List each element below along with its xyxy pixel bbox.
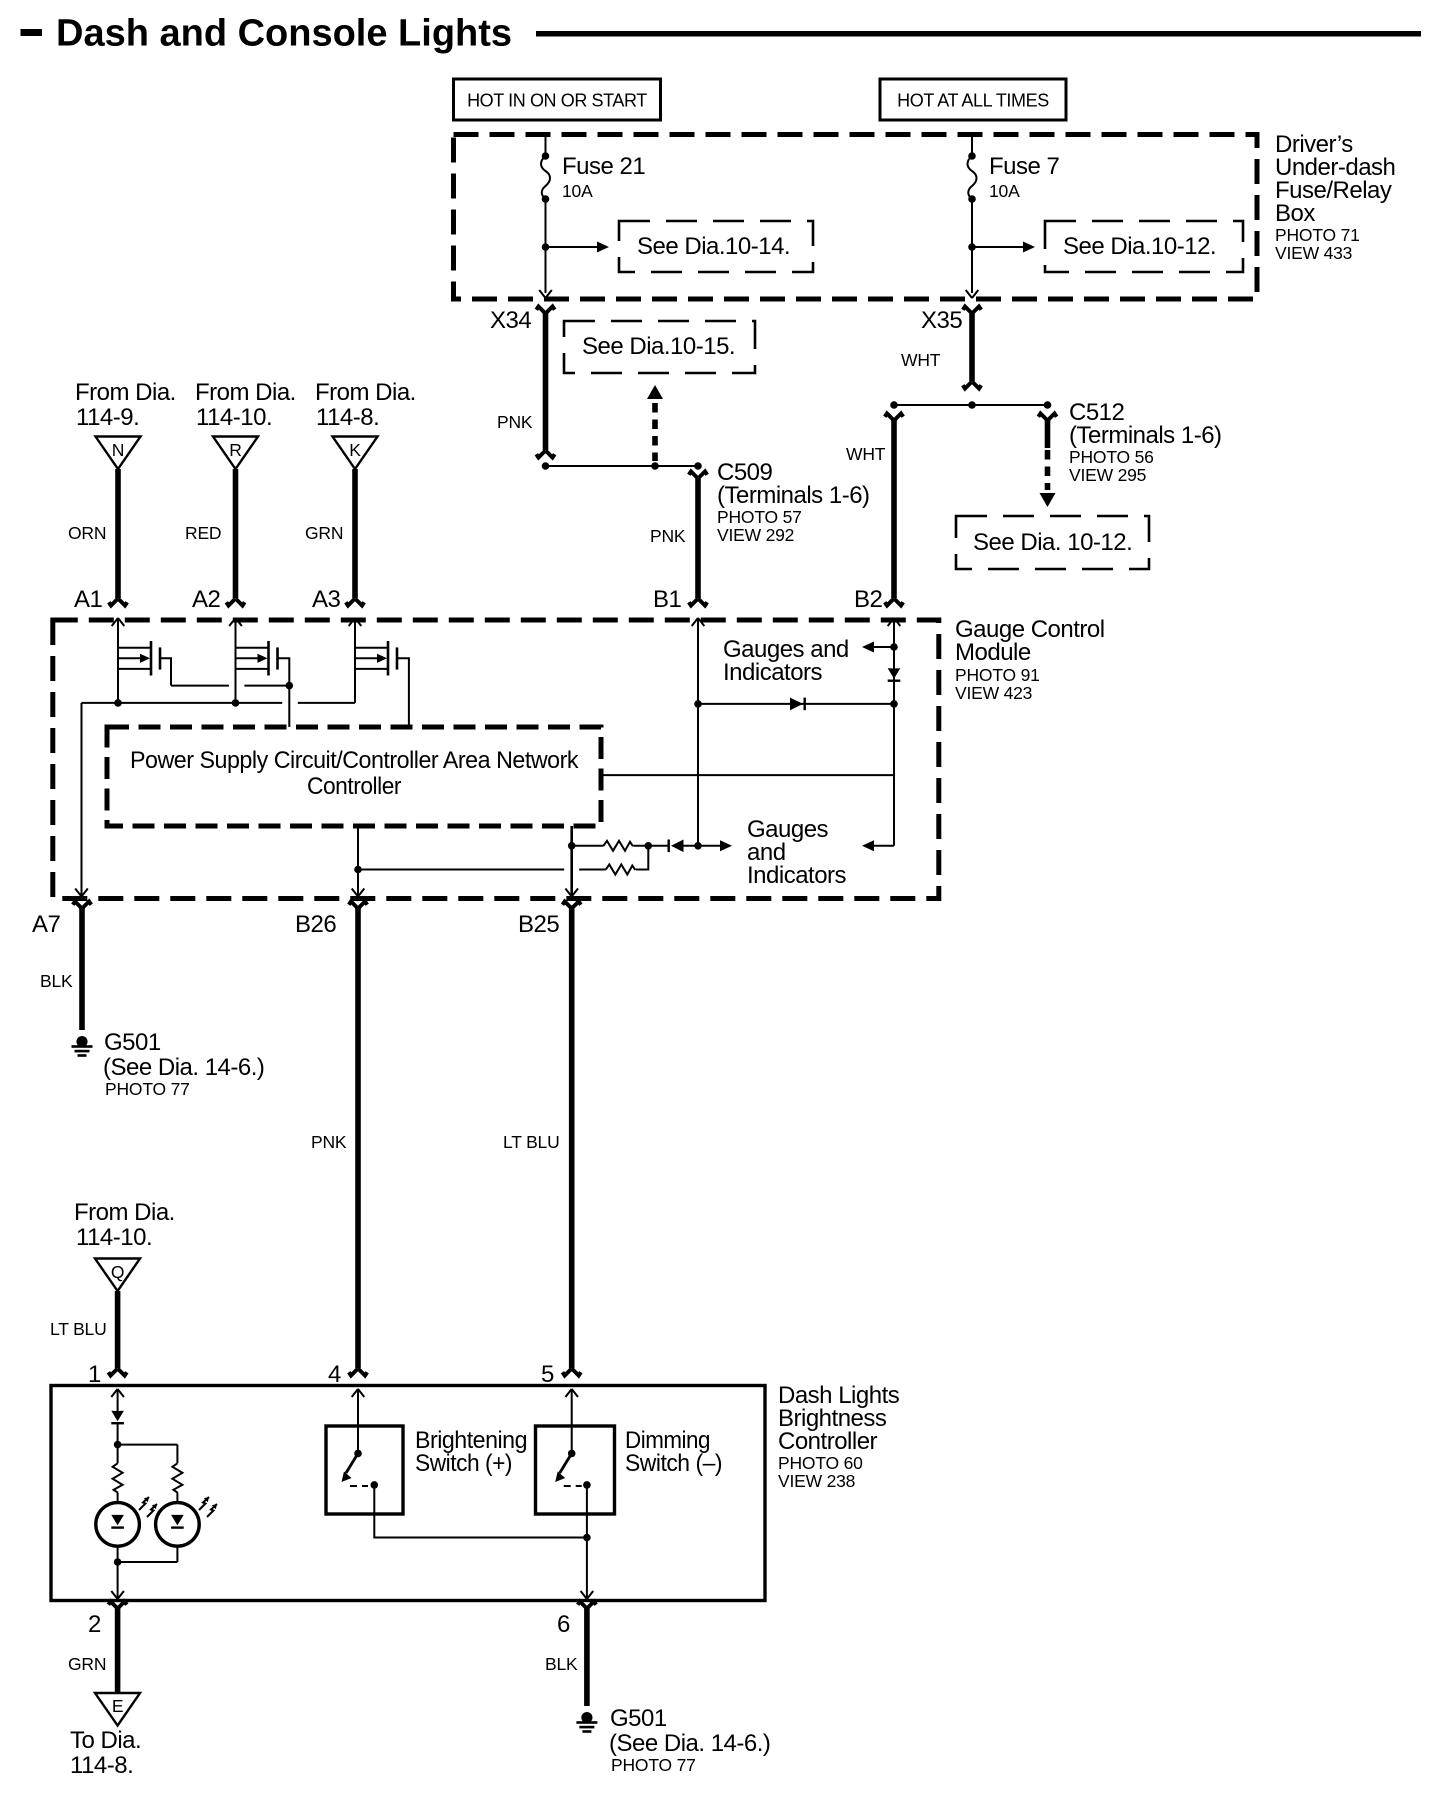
connector C509	[650, 459, 870, 606]
label Gauges and Indicators (lower)	[747, 816, 847, 889]
wire arrow to gauges (upper)	[862, 642, 898, 653]
node B2/diode line	[890, 700, 898, 708]
wire ORN N to A1	[68, 469, 127, 606]
wire pin5 entry arrow	[565, 1389, 578, 1453]
LED LED2	[156, 1497, 217, 1546]
svg-text:VIEW 292: VIEW 292	[717, 525, 794, 545]
svg-text:WHT: WHT	[901, 350, 941, 370]
svg-text:114-10.: 114-10.	[196, 404, 272, 431]
svg-text:Fuse 21: Fuse 21	[562, 153, 645, 180]
wire B2 stem	[888, 618, 901, 846]
wire B2 bottom arrow to gauges	[862, 840, 894, 851]
wire LT BLU Q to pin 1	[50, 1291, 127, 1376]
diode D3 (pointing left)	[668, 840, 684, 853]
resistor R4	[172, 1463, 182, 1493]
label See Dia.10-12. (upper)	[1045, 221, 1243, 272]
svg-text:E: E	[112, 1696, 123, 1716]
svg-text:10A: 10A	[989, 181, 1020, 201]
wire from controller box to B2 stem	[601, 774, 894, 776]
svg-text:VIEW 423: VIEW 423	[955, 683, 1032, 703]
svg-text:From Dia.: From Dia.	[315, 379, 416, 406]
wire lower gauge row	[568, 841, 668, 851]
wire BLK A7 to ground	[40, 902, 91, 1031]
wire LT BLU B25 to pin 5	[503, 902, 581, 1376]
svg-text:114-9.: 114-9.	[76, 404, 139, 431]
svg-text:From Dia.: From Dia.	[195, 379, 296, 406]
svg-text:G501: G501	[104, 1029, 161, 1056]
svg-text:WHT: WHT	[846, 444, 886, 464]
wire diode row B1 to B2	[698, 703, 894, 705]
wire WHT to B2	[846, 414, 903, 606]
wire: dashed arrow up to See Dia.10-15	[647, 385, 663, 461]
gauge control module box (dashed)	[53, 620, 939, 899]
wire RED R to A2	[185, 469, 245, 606]
wire pin1 entry arrow	[111, 1389, 124, 1412]
wire: dashed arrow down to See Dia. 10-12	[1040, 450, 1056, 507]
diode D1 on B2 stem	[888, 668, 901, 682]
wire jog X34 to C509	[546, 465, 699, 467]
wire pin4 entry arrow	[352, 1389, 365, 1453]
diode D4 at pin 1	[111, 1411, 124, 1425]
diode D2 in row	[790, 698, 806, 711]
svg-text:To Dia.: To Dia.	[70, 1727, 141, 1754]
wire to B1 and arrow right	[684, 840, 733, 851]
svg-text:B1: B1	[653, 586, 682, 613]
svg-text:4: 4	[328, 1361, 341, 1388]
wire BLK pin 6 to ground	[545, 1602, 596, 1707]
svg-text:Dash and Console Lights: Dash and Console Lights	[56, 13, 512, 55]
label See Dia.10-15.	[564, 321, 755, 373]
svg-text:LT BLU: LT BLU	[50, 1319, 107, 1339]
svg-text:HOT IN ON OR START: HOT IN ON OR START	[467, 91, 647, 111]
transistor Q3	[349, 618, 409, 727]
svg-text:PHOTO 56: PHOTO 56	[1069, 447, 1154, 467]
label Brightening Switch (+)	[415, 1427, 527, 1477]
svg-text:Fuse 7: Fuse 7	[989, 153, 1060, 180]
svg-text:PHOTO 60: PHOTO 60	[778, 1453, 863, 1473]
wire: fuse7 branch arrow to See Dia.10-12	[968, 242, 1035, 253]
svg-text:From Dia.: From Dia.	[74, 1199, 175, 1226]
node Q from Dia 114-10	[74, 1199, 175, 1291]
svg-text:PHOTO 71: PHOTO 71	[1275, 225, 1360, 245]
svg-text:A7: A7	[32, 911, 61, 938]
svg-text:K: K	[349, 440, 361, 460]
svg-text:BLK: BLK	[545, 1654, 578, 1674]
svg-text:Box: Box	[1275, 200, 1315, 227]
wire gate bus	[82, 699, 356, 707]
wire A7 drop inside module	[81, 703, 83, 898]
svg-text:From Dia.: From Dia.	[75, 379, 176, 406]
connector X34	[490, 307, 555, 458]
LED LED1	[96, 1497, 157, 1546]
svg-text:PHOTO 77: PHOTO 77	[105, 1079, 190, 1099]
svg-text:A1: A1	[74, 586, 103, 613]
connector X35	[901, 307, 981, 389]
node R from Dia 114-10	[195, 379, 296, 469]
svg-text:114-8.: 114-8.	[316, 404, 379, 431]
svg-text:A3: A3	[312, 586, 341, 613]
title	[21, 29, 43, 36]
node N from Dia 114-9	[75, 379, 176, 469]
svg-text:Controller: Controller	[307, 773, 401, 800]
svg-text:2: 2	[88, 1611, 101, 1638]
svg-text:N: N	[112, 440, 124, 460]
node E to Dia 114-8	[70, 1693, 141, 1779]
wire LED bottoms join	[111, 1546, 177, 1599]
svg-text:Indicators: Indicators	[747, 862, 847, 889]
svg-text:(Terminals 1-6): (Terminals 1-6)	[1069, 422, 1222, 449]
switch S2 dimming box	[536, 1426, 615, 1514]
node K from Dia 114-8	[315, 379, 416, 469]
wire: fuse21 branch arrow to See Dia.10-14	[542, 242, 609, 253]
wire Q1 source	[171, 685, 229, 687]
label HOT IN ON OR START	[454, 79, 661, 120]
fuse F21 "Fuse 21"	[541, 134, 645, 293]
svg-text:BLK: BLK	[40, 971, 73, 991]
svg-text:(See Dia. 14-6.): (See Dia. 14-6.)	[609, 1730, 770, 1757]
svg-text:B2: B2	[854, 586, 883, 613]
svg-text:R: R	[229, 440, 241, 460]
switch S1 lever	[342, 1450, 379, 1489]
svg-text:VIEW 295: VIEW 295	[1069, 465, 1146, 485]
svg-text:PHOTO 77: PHOTO 77	[611, 1755, 696, 1775]
svg-text:5: 5	[541, 1361, 554, 1388]
svg-text:Switch (–): Switch (–)	[625, 1450, 722, 1477]
label HOT AT ALL TIMES	[880, 79, 1066, 120]
svg-text:6: 6	[557, 1611, 570, 1638]
svg-text:HOT AT ALL TIMES: HOT AT ALL TIMES	[897, 91, 1049, 111]
wire R4 to LED2	[176, 1493, 178, 1502]
fuse/relay box (dashed)	[454, 135, 1258, 300]
svg-text:1: 1	[88, 1361, 101, 1388]
wire B25 stem	[565, 826, 578, 898]
wire S1 contact to junction	[374, 1485, 587, 1538]
svg-text:114-8.: 114-8.	[70, 1752, 133, 1779]
svg-text:See Dia.10-14.: See Dia.10-14.	[637, 233, 790, 260]
wire PNK B26 to pin 4	[311, 902, 367, 1376]
svg-text:A2: A2	[192, 586, 221, 613]
svg-text:10A: 10A	[562, 181, 593, 201]
svg-text:Power Supply Circuit/Controlle: Power Supply Circuit/Controller Area Net…	[130, 747, 579, 774]
ground G501	[72, 1029, 265, 1099]
svg-text:GRN: GRN	[68, 1654, 106, 1674]
switch S2 lever	[555, 1450, 591, 1489]
svg-text:See Dia.10-12.: See Dia.10-12.	[1063, 233, 1216, 260]
wire S2 contact to pin 6	[581, 1485, 594, 1599]
svg-text:Switch (+): Switch (+)	[415, 1450, 512, 1477]
wire B26 stem	[352, 826, 365, 898]
svg-text:PHOTO 91: PHOTO 91	[955, 665, 1040, 685]
svg-text:B26: B26	[295, 911, 336, 938]
fuse F7 "Fuse 7"	[968, 134, 1060, 293]
wire B1 stem	[692, 618, 705, 850]
svg-text:Controller: Controller	[778, 1428, 878, 1455]
svg-text:RED: RED	[185, 523, 221, 543]
switch S1 brightening box	[326, 1426, 403, 1514]
dash lights brightness controller box	[51, 1386, 765, 1601]
node under X34	[542, 462, 550, 470]
node Q2 output junction	[286, 682, 294, 690]
svg-text:B25: B25	[518, 911, 559, 938]
wire R3 to LED1	[117, 1493, 119, 1502]
svg-text:GRN: GRN	[305, 523, 343, 543]
label Gauges and Indicators (upper)	[723, 636, 849, 686]
wire split under X35	[890, 401, 1051, 409]
svg-text:See Dia. 10-12.: See Dia. 10-12.	[973, 529, 1132, 556]
svg-text:ORN: ORN	[68, 523, 106, 543]
wire pin1 to LED branch split	[114, 1424, 178, 1463]
svg-text:X35: X35	[921, 307, 962, 334]
svg-text:PNK: PNK	[497, 412, 533, 432]
svg-text:VIEW 433: VIEW 433	[1275, 243, 1352, 263]
transistor Q2	[229, 618, 289, 727]
power supply circuit/CAN controller box (dashed)	[107, 727, 601, 826]
wire GRN pin 2 to E	[68, 1602, 127, 1694]
wire Q1 source to Q2 drain join	[244, 685, 289, 687]
svg-text:Module: Module	[955, 639, 1031, 666]
svg-text:(See Dia. 14-6.): (See Dia. 14-6.)	[103, 1054, 264, 1081]
svg-text:Q: Q	[111, 1262, 124, 1282]
wire: fuse7 exit arrow at box edge	[966, 290, 979, 298]
resistor R3	[113, 1463, 123, 1493]
svg-text:See Dia.10-15.: See Dia.10-15.	[582, 333, 735, 360]
svg-text:PHOTO 57: PHOTO 57	[717, 507, 802, 527]
label Dash Lights Brightness Controller	[778, 1382, 900, 1491]
label Driver's Under-dash Fuse/Relay Box	[1275, 131, 1395, 263]
svg-text:114-10.: 114-10.	[76, 1224, 152, 1251]
svg-text:PNK: PNK	[311, 1132, 347, 1152]
svg-text:Indicators: Indicators	[723, 659, 823, 686]
label Gauge Control Module	[955, 616, 1105, 703]
svg-text:G501: G501	[610, 1705, 667, 1732]
connector C512	[1038, 399, 1221, 485]
svg-text:VIEW 238: VIEW 238	[778, 1471, 855, 1491]
wire GRN K to A3	[305, 469, 364, 606]
wire: fuse21 exit arrow at box edge	[539, 290, 552, 298]
svg-text:X34: X34	[490, 307, 531, 334]
transistor Q1	[112, 618, 171, 703]
svg-text:PNK: PNK	[650, 526, 686, 546]
resistor R2 row to B26 stem	[358, 846, 648, 875]
svg-text:LT BLU: LT BLU	[503, 1132, 560, 1152]
label See Dia. 10-12. (lower)	[956, 516, 1149, 569]
ground G501 (bottom)	[576, 1705, 770, 1775]
label See Dia.10-14.	[619, 221, 813, 272]
label Dimming Switch (-)	[625, 1427, 722, 1477]
svg-text:(Terminals 1-6): (Terminals 1-6)	[717, 482, 870, 509]
